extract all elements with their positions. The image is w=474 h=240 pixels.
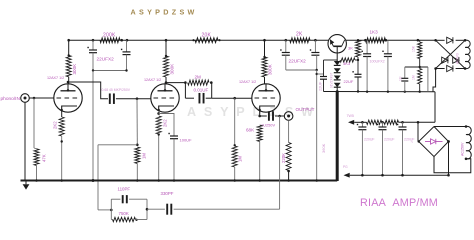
svg-text:2K2: 2K2 — [53, 121, 58, 129]
wire input grid V1 — [29, 97, 54, 99]
svg-text:OUTPUT: OUTPUT — [296, 107, 315, 112]
resistor stack upper — [418, 42, 422, 59]
svg-text:220UF: 220UF — [384, 138, 395, 142]
wire coupling cap to V2 grid — [116, 98, 151, 100]
tube V1 12AX7 — [54, 84, 82, 112]
wire V2 cathode node — [157, 112, 160, 115]
node V2 rail — [165, 39, 168, 42]
wire stack node — [405, 66, 428, 68]
zener D3 — [334, 76, 341, 80]
wire V3 anode column upper — [264, 40, 266, 57]
wire filter right — [399, 121, 436, 123]
node feedback tap — [136, 144, 139, 147]
svg-text:2K2: 2K2 — [163, 119, 168, 127]
node bus 100UF — [173, 179, 176, 182]
wire RC to V3 grid — [212, 97, 252, 99]
wire psu ground — [344, 173, 350, 178]
wire bridge2 ac bottom — [434, 157, 471, 173]
wire bridge1 minus drop — [433, 69, 436, 92]
node V3 rail — [263, 39, 266, 42]
transistor Q1 pass — [328, 35, 346, 53]
wire 3K3 to node X — [355, 59, 358, 61]
svg-text:300K: 300K — [170, 63, 175, 75]
ground symbol — [25, 181, 27, 185]
capacitor 22UF a — [92, 40, 94, 50]
node output tap — [278, 115, 281, 118]
wire 750K branch lead — [111, 219, 112, 221]
node mid bus d — [419, 91, 421, 93]
resistor 750K — [113, 217, 136, 221]
svg-text:100UFX2: 100UFX2 — [370, 59, 385, 63]
zener D1 — [334, 61, 341, 65]
resistor 3K3 — [340, 58, 355, 62]
node bus 220K — [287, 179, 290, 182]
capacitor 100UF a — [366, 40, 368, 54]
wire zener bottom — [336, 87, 338, 91]
node bus 68K — [258, 179, 261, 182]
capacitor 330PF — [166, 204, 168, 215]
bridge1 corner dots — [434, 39, 437, 42]
svg-text:22UFX2: 22UFX2 — [289, 59, 307, 64]
node grid leak tap — [33, 97, 36, 100]
wire jack shield to ground — [24, 102, 26, 180]
svg-text:1M: 1M — [142, 153, 147, 159]
wire 110PF branch — [111, 198, 120, 200]
node 200K left — [92, 39, 95, 42]
node 750K right — [135, 219, 137, 221]
resistor 2M — [188, 80, 209, 85]
wire ground bus — [21, 180, 338, 182]
capacitor 22UF right — [357, 60, 359, 74]
svg-text:300K: 300K — [72, 63, 77, 75]
wire feedback left box — [110, 199, 112, 219]
svg-text:PG: PG — [343, 165, 348, 169]
wire 1M column — [136, 99, 138, 145]
node 200K right — [120, 39, 123, 42]
svg-text:AC250V: AC250V — [461, 142, 465, 156]
resistor 1M V3 grid — [232, 146, 237, 167]
node filter c — [401, 121, 404, 124]
resistor 1K3 — [366, 38, 386, 43]
svg-text:12AX7 1/2: 12AX7 1/2 — [47, 76, 64, 80]
wire feedback drop x98 — [97, 145, 99, 210]
wire RC left leg — [184, 83, 186, 99]
svg-text:ASYPDZSW: ASYPDZSW — [131, 8, 198, 17]
node RC right — [210, 81, 213, 84]
transformer T1 winding — [465, 40, 470, 68]
node mid bus a — [366, 91, 368, 93]
svg-text:0.01UF: 0.01UF — [194, 87, 209, 92]
zener D2 — [334, 68, 341, 72]
diode bridge1 right — [453, 57, 459, 63]
svg-text:22UF: 22UF — [319, 81, 323, 91]
svg-text:220UF: 220UF — [364, 138, 375, 142]
capacitor 110PF — [122, 195, 124, 203]
wire V1 cathode to bus — [61, 136, 63, 181]
wire V1 anode node — [68, 77, 70, 84]
wire V2 anode column upper — [165, 40, 167, 56]
node psu gnd d — [447, 174, 450, 177]
resistor 20K rail — [195, 38, 218, 43]
tube V3 12AX7 — [252, 84, 280, 112]
capacitor 100UF b — [387, 40, 389, 54]
wire feedback to output riser — [174, 208, 280, 210]
svg-text:1K3: 1K3 — [370, 29, 379, 34]
svg-text:200K: 200K — [103, 33, 116, 39]
svg-text:360K: 360K — [321, 143, 326, 153]
bridge2 diamond — [419, 127, 449, 157]
resistor 300K (V3 plate load) — [262, 57, 267, 77]
wire output riser — [279, 116, 281, 209]
wire feedback tap across — [98, 144, 137, 146]
node rail stack — [417, 39, 420, 42]
svg-text:750K: 750K — [119, 211, 129, 216]
regulator box top — [324, 59, 338, 61]
resistor 2K2 V1 — [59, 117, 64, 136]
zener D4 — [334, 83, 341, 87]
node 1K3 left — [364, 39, 367, 42]
bridge2 corner dots — [418, 140, 420, 142]
resistor 1M V2 grid — [135, 147, 140, 164]
svg-text:3K3: 3K3 — [343, 61, 351, 66]
node psu gnd a — [361, 174, 364, 177]
node 1K3 right — [385, 39, 388, 42]
wire mid bus — [324, 91, 436, 93]
svg-text:1U: 1U — [399, 76, 403, 81]
capacitor 1U/250V output — [268, 111, 270, 121]
svg-text:22UFX2: 22UFX2 — [97, 57, 115, 62]
wire 100UF a drop — [366, 57, 368, 92]
svg-text:220K: 220K — [281, 153, 286, 163]
svg-text:20K: 20K — [202, 33, 212, 39]
resistor 47K — [34, 149, 39, 166]
node bus 1M — [136, 179, 139, 182]
svg-text:68K: 68K — [246, 128, 255, 133]
connector phono jack — [21, 94, 30, 103]
bridge1 frame — [436, 39, 445, 41]
svg-text:100UF: 100UF — [180, 138, 193, 143]
resistor 2K rail — [290, 38, 310, 43]
wire 47K column upper — [33, 98, 35, 148]
wire V2 anode to RC — [166, 82, 185, 84]
wire 100UF top lead — [159, 114, 174, 137]
wire 100UF b drop — [387, 57, 389, 92]
svg-text:12AX7 1/2: 12AX7 1/2 — [144, 78, 161, 82]
node feedback left — [110, 209, 113, 212]
capacitor 22UF box left — [323, 60, 325, 77]
svg-text:15K: 15K — [412, 45, 416, 52]
node filter bridge tap — [417, 121, 420, 124]
resistor 300K (V2 plate load) — [164, 56, 169, 77]
wire cap to jack — [275, 115, 284, 117]
svg-text:3K: 3K — [348, 46, 353, 51]
svg-text:110PF: 110PF — [118, 186, 131, 191]
svg-text:0.68 45 MKP/250V: 0.68 45 MKP/250V — [102, 88, 131, 92]
wire 750K to node — [136, 219, 148, 221]
wire stack lower lead — [419, 87, 421, 92]
wire to 330PF — [147, 208, 165, 210]
capacitor 100UF — [170, 135, 178, 137]
node bus 47K — [35, 179, 38, 182]
capacitor 220UF b — [382, 122, 384, 127]
wire emitter to zener chain — [336, 53, 338, 61]
resistor 220K — [286, 143, 291, 171]
wire V2 anode node — [165, 77, 167, 84]
wire V2 cathode to bus — [158, 134, 160, 181]
wire 22UF pair2 bottoms — [285, 55, 287, 70]
wire 100UF to bus — [173, 139, 175, 181]
resistor stack lower — [418, 69, 422, 85]
svg-text:AC6V3: AC6V3 — [456, 53, 460, 64]
capacitor 0.01UF — [198, 93, 200, 104]
wire V3 grid leak column — [234, 98, 236, 146]
node mid bus b — [387, 91, 389, 93]
node bus drop 22ufx2 — [315, 179, 318, 182]
resistor 3K vert — [356, 40, 361, 57]
wire RC right leg — [211, 83, 213, 99]
wire B+ rail right — [346, 39, 436, 41]
resistor 68K — [257, 125, 262, 142]
resistor 2K2 V2 — [156, 116, 161, 134]
wire V3 anode lower — [264, 77, 266, 84]
node psu gnd c — [401, 174, 404, 177]
wire aux right leg — [427, 67, 429, 92]
wire cathode to output cap — [260, 115, 267, 117]
node bus decoupling — [92, 179, 95, 182]
node bus V2 cathode — [157, 179, 160, 182]
wire V3 grid leak to bus — [234, 167, 236, 181]
diode bridge2 inner — [425, 141, 431, 143]
wire V1 cathode — [61, 112, 63, 118]
node filter a — [361, 121, 364, 124]
svg-text:1M: 1M — [412, 75, 416, 80]
node RC left — [184, 81, 187, 84]
node box bottom — [336, 90, 339, 93]
node V2 grid leak tap — [136, 97, 139, 100]
node feedback mid — [146, 208, 149, 211]
wire 22UF pair bottoms — [92, 53, 94, 71]
capacitor 22UF b — [126, 40, 128, 52]
resistor 200K rail — [100, 38, 120, 43]
svg-text:300K: 300K — [268, 63, 273, 75]
svg-text:47K: 47K — [42, 154, 47, 162]
node filter b — [381, 121, 384, 124]
svg-text:RIAA AMP/MM: RIAA AMP/MM — [360, 197, 438, 209]
svg-text:2M: 2M — [195, 74, 202, 79]
wire bridge2 feed — [417, 122, 419, 141]
diode bridge1 left — [442, 57, 448, 63]
tube V2 12AX7 — [151, 84, 179, 112]
node mid bus c — [404, 91, 406, 93]
wire V3 cathode down — [259, 112, 261, 117]
svg-text:1U250V: 1U250V — [261, 122, 275, 127]
svg-text:1M: 1M — [238, 156, 243, 162]
capacitor 220UF a — [361, 122, 363, 127]
node rail left corner — [67, 39, 70, 42]
wire mid-bus to filter — [434, 92, 436, 123]
wire decoupling ground drop — [92, 71, 94, 181]
wire 1M to bus — [136, 164, 138, 181]
resistor filter B — [384, 120, 399, 124]
capacitor 22UF d — [314, 40, 316, 52]
node V3 grid leak tap — [233, 97, 236, 100]
wire 3K to node X — [357, 57, 359, 60]
node bus V1 cathode — [60, 179, 63, 182]
capacitor 1UF aux — [404, 67, 406, 78]
svg-text:2K: 2K — [296, 31, 303, 37]
capacitor 22UF c — [285, 40, 287, 52]
wire bridge2 minus — [448, 142, 450, 176]
wire 47K to bus — [36, 166, 38, 181]
svg-text:~: ~ — [411, 140, 414, 145]
node bus V3 grid leak — [233, 179, 236, 182]
wire drop to ground bus — [316, 70, 318, 181]
resistor 300K (V1 plate load) — [66, 55, 71, 76]
wire feedback right box — [146, 199, 148, 219]
wire feedback left feed — [98, 209, 111, 211]
node psu gnd b — [381, 174, 384, 177]
svg-text:7W5: 7W5 — [347, 114, 354, 118]
diode bridge1 bottom — [447, 65, 453, 71]
wire jack to 220K — [288, 120, 290, 142]
svg-text:22UF: 22UF — [344, 79, 354, 84]
wire 220K to bus — [288, 171, 290, 181]
wire bridge2 ac top — [434, 126, 466, 128]
svg-text:12AX7 1/2: 12AX7 1/2 — [239, 80, 256, 84]
wire V1 anode to coupling cap — [68, 82, 108, 99]
connector output jack — [284, 112, 293, 121]
arrow B+ out — [348, 120, 354, 125]
node V3 cathode — [258, 115, 261, 118]
svg-text:330PF: 330PF — [161, 191, 174, 196]
capacitor 220UF c — [402, 122, 404, 127]
svg-text:phono/IN: phono/IN — [1, 96, 21, 102]
diode bridge1 top — [447, 37, 453, 43]
capacitor 0.68UF coupling — [109, 93, 111, 104]
wire B+ heavy — [336, 92, 339, 182]
wire 68K to bus — [259, 142, 261, 181]
svg-text:91V2X4S7: 91V2X4S7 — [330, 73, 334, 88]
resistor filter A — [367, 120, 382, 124]
wire V1 anode column upper — [68, 40, 70, 55]
transformer T2 winding — [466, 126, 471, 159]
wire B+ rail left — [69, 39, 329, 41]
